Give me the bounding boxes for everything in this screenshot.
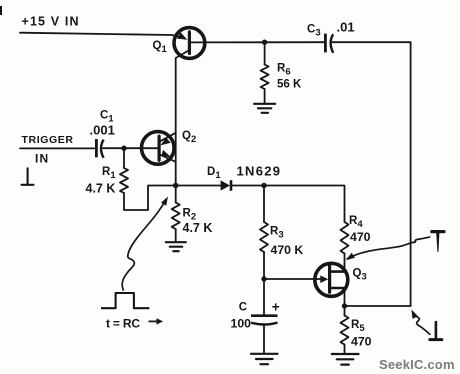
svg-text:R1: R1 [102, 166, 116, 181]
svg-text:470: 470 [350, 230, 371, 244]
svg-text:Q1: Q1 [153, 40, 168, 55]
svg-text:470 K: 470 K [271, 243, 304, 257]
svg-text:4.7 K: 4.7 K [86, 182, 116, 196]
svg-text:100: 100 [231, 317, 252, 331]
svg-text:C: C [239, 302, 247, 314]
svg-text:56 K: 56 K [277, 78, 302, 90]
svg-text:R4: R4 [349, 215, 363, 230]
svg-text:C3: C3 [307, 24, 321, 39]
svg-text:D1: D1 [207, 166, 221, 181]
svg-text:Q2: Q2 [182, 130, 196, 145]
svg-text:R6: R6 [277, 63, 291, 78]
svg-text:1N629: 1N629 [237, 164, 282, 179]
svg-text:R5: R5 [351, 319, 365, 334]
svg-text:Q3: Q3 [353, 268, 367, 283]
svg-text:.001: .001 [90, 123, 115, 138]
svg-text:SeekIC.com: SeekIC.com [379, 357, 455, 372]
svg-text:R3: R3 [270, 226, 284, 241]
svg-text:.01: .01 [337, 20, 355, 35]
svg-text:470: 470 [351, 334, 372, 348]
svg-text:IN: IN [35, 152, 49, 166]
svg-text:TRIGGER: TRIGGER [22, 134, 74, 146]
svg-text:t = RC: t = RC [106, 317, 140, 331]
svg-text:+: + [272, 300, 280, 315]
svg-text:+15 V IN: +15 V IN [22, 15, 80, 29]
svg-text:4.7 K: 4.7 K [183, 221, 213, 235]
